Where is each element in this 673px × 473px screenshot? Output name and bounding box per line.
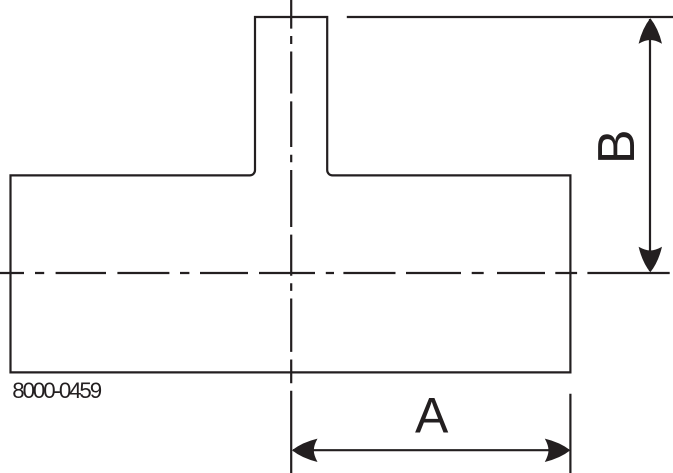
top extension line	[347, 16, 673, 18]
dimension line B	[649, 19, 651, 271]
vertical centerline	[290, 0, 292, 473]
tee body outline	[11, 17, 571, 372]
svg-text:8000-0459: 8000-0459	[12, 378, 101, 403]
right extension line	[569, 394, 571, 473]
horizontal centerline	[0, 272, 670, 274]
svg-text:A: A	[415, 388, 449, 444]
label B	[588, 129, 646, 164]
arrow A right	[545, 439, 571, 462]
dimension line A	[293, 449, 569, 451]
arrow B bottom	[639, 247, 662, 273]
arrow B top	[639, 18, 662, 44]
arrow A left	[292, 439, 318, 462]
svg-text:B: B	[588, 129, 646, 164]
